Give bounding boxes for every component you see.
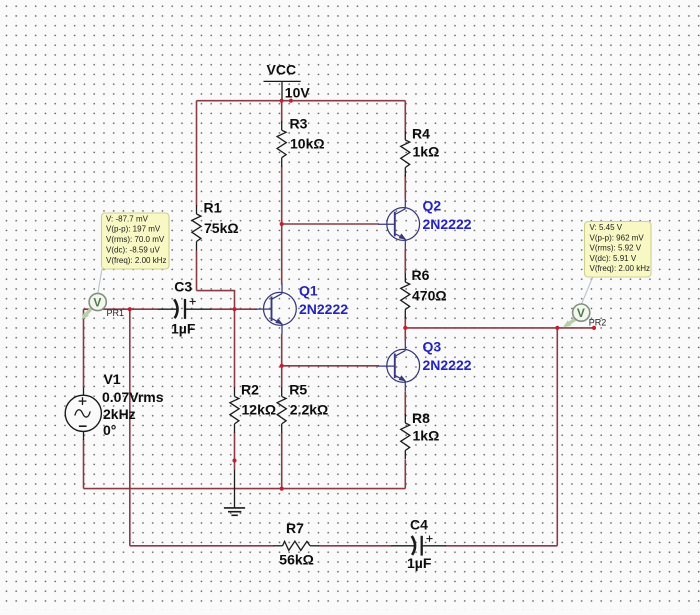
wire R1 top vertical (196, 101, 198, 206)
ground (224, 470, 245, 515)
svg-text:R1: R1 (204, 200, 222, 216)
svg-text:V: -87.7 mV: V: -87.7 mV (106, 214, 149, 223)
label Q2 (423, 197, 472, 232)
wire feedback row to R7 (130, 545, 274, 547)
wire Q3 base wire (282, 365, 379, 367)
wire R2 top (234, 309, 236, 388)
probe PR2 (563, 304, 607, 327)
wire R3 top lead riser (281, 101, 283, 123)
wire left rail lower (83, 440, 85, 489)
svg-text:12kΩ: 12kΩ (242, 402, 277, 418)
svg-text:V: V (93, 295, 101, 309)
wire Q3 emitter to R8 (404, 392, 406, 416)
power VCC (264, 62, 311, 101)
wire Q1 emitter drop (281, 334, 283, 366)
wire PR1 node drop (129, 309, 131, 546)
svg-text:V(p-p): 197 mV: V(p-p): 197 mV (106, 225, 161, 234)
wire R4 top riser (404, 101, 406, 132)
svg-text:C4: C4 (410, 517, 428, 533)
wire R5 bottom (281, 433, 283, 489)
transistor Q2 (378, 199, 420, 250)
node out-stub (592, 326, 596, 330)
svg-text:0°: 0° (103, 422, 116, 438)
wire ground rail (84, 488, 406, 490)
svg-text:2.2kΩ: 2.2kΩ (290, 402, 328, 418)
label V1 (102, 371, 164, 438)
wire R7 to C4 (319, 545, 393, 547)
wire right rail down (556, 328, 558, 546)
svg-text:R3: R3 (290, 116, 308, 132)
node Q1-emitter (280, 364, 284, 368)
resistor R7 (274, 520, 320, 567)
wire R3 bottom to Q1 collector (281, 166, 283, 285)
svg-text:Q1: Q1 (299, 282, 318, 298)
svg-text:2N2222: 2N2222 (423, 357, 472, 373)
svg-text:C3: C3 (174, 279, 192, 295)
node R2-gnd (232, 458, 236, 462)
capacitor C4 (392, 517, 447, 572)
svg-text:V: V (577, 306, 585, 320)
label Q3 (423, 338, 472, 373)
measurement box PR1 (102, 213, 170, 269)
resistor R1 (192, 200, 239, 251)
svg-text:R7: R7 (286, 520, 304, 536)
svg-text:2N2222: 2N2222 (423, 216, 472, 232)
wire Q1 base wire (235, 308, 258, 310)
svg-text:10kΩ: 10kΩ (290, 136, 325, 152)
resistor R4 (401, 126, 440, 177)
svg-text:10V: 10V (285, 84, 311, 100)
transistor Q1 (255, 283, 297, 334)
probe leader PR1 (98, 269, 102, 293)
svg-text:Q2: Q2 (423, 197, 442, 213)
measurement box PR2 (585, 222, 652, 278)
node out-left (403, 326, 407, 330)
wire R2 bottom (234, 433, 236, 471)
wire R4 bottom to Q2 collector (404, 175, 406, 199)
wire left rail upper (83, 309, 85, 388)
svg-text:PR1: PR1 (107, 308, 125, 318)
svg-text:1µF: 1µF (407, 555, 432, 571)
label Q1 (299, 282, 348, 317)
svg-text:R8: R8 (412, 410, 430, 426)
svg-text:V(freq): 2.00 kHz: V(freq): 2.00 kHz (590, 264, 650, 273)
resistor R6 (401, 267, 447, 319)
wire R8 bottom drop (404, 460, 406, 489)
wire R1 bottom drop (196, 251, 198, 291)
node PR1 (128, 307, 132, 311)
svg-text:56kΩ: 56kΩ (279, 552, 314, 568)
capacitor C3 (158, 279, 211, 337)
svg-text:V(rms): 70.0 mV: V(rms): 70.0 mV (106, 235, 165, 244)
wire Q2 base wire (282, 223, 379, 225)
node C3-out (232, 307, 236, 311)
svg-text:2kHz: 2kHz (103, 406, 136, 422)
node VCC-left (280, 99, 284, 103)
svg-text:V(dc): -8.59 uV: V(dc): -8.59 uV (106, 246, 160, 255)
wire VCC rail (197, 100, 406, 102)
wire C3 to node (211, 308, 236, 310)
wire output row left (405, 327, 557, 329)
svg-text:R2: R2 (241, 382, 259, 398)
wire input row (84, 308, 159, 310)
svg-text:0.07Vrms: 0.07Vrms (102, 389, 164, 405)
node R5-gnd (280, 487, 284, 491)
svg-text:V(p-p): 962 mV: V(p-p): 962 mV (590, 233, 645, 242)
wire Q2 emitter to R6 (404, 249, 406, 273)
svg-text:V(freq): 2.00 kHz: V(freq): 2.00 kHz (106, 256, 166, 265)
svg-text:1µF: 1µF (171, 321, 196, 337)
source V1 (65, 388, 101, 441)
node Q2-base (280, 222, 284, 226)
resistor R8 (401, 410, 440, 460)
wire R1 jog horizontal (197, 290, 235, 292)
svg-text:470Ω: 470Ω (412, 288, 447, 304)
wire output row right stub (557, 327, 594, 329)
svg-text:V(rms): 5.92 V: V(rms): 5.92 V (590, 244, 642, 253)
wire C4 to right rail (446, 545, 558, 547)
svg-text:2N2222: 2N2222 (299, 301, 348, 317)
svg-text:1kΩ: 1kΩ (413, 428, 440, 444)
resistor R5 (277, 382, 328, 433)
resistor R2 (230, 382, 276, 433)
wire R6 bottom to Q3 collector (404, 317, 406, 341)
svg-text:Q3: Q3 (423, 338, 442, 354)
svg-text:1kΩ: 1kΩ (413, 144, 440, 160)
svg-text:75kΩ: 75kΩ (204, 220, 239, 236)
svg-text:V: 5.45 V: V: 5.45 V (590, 223, 623, 232)
svg-text:R4: R4 (412, 126, 430, 142)
node out-right (555, 326, 559, 330)
node VCC-right (289, 99, 293, 103)
svg-text:PR2: PR2 (589, 317, 607, 327)
probe PR1 (81, 293, 124, 319)
transistor Q3 (378, 340, 420, 391)
svg-text:R5: R5 (289, 382, 307, 398)
svg-text:R6: R6 (412, 267, 430, 283)
svg-text:V1: V1 (104, 371, 121, 387)
wire R1 jog drop (234, 290, 236, 309)
svg-text:V(dc): 5.91 V: V(dc): 5.91 V (590, 254, 637, 263)
probe leader PR2 (582, 277, 593, 304)
wire R5 top (281, 366, 283, 388)
resistor R3 (277, 116, 324, 167)
svg-text:VCC: VCC (267, 62, 297, 78)
